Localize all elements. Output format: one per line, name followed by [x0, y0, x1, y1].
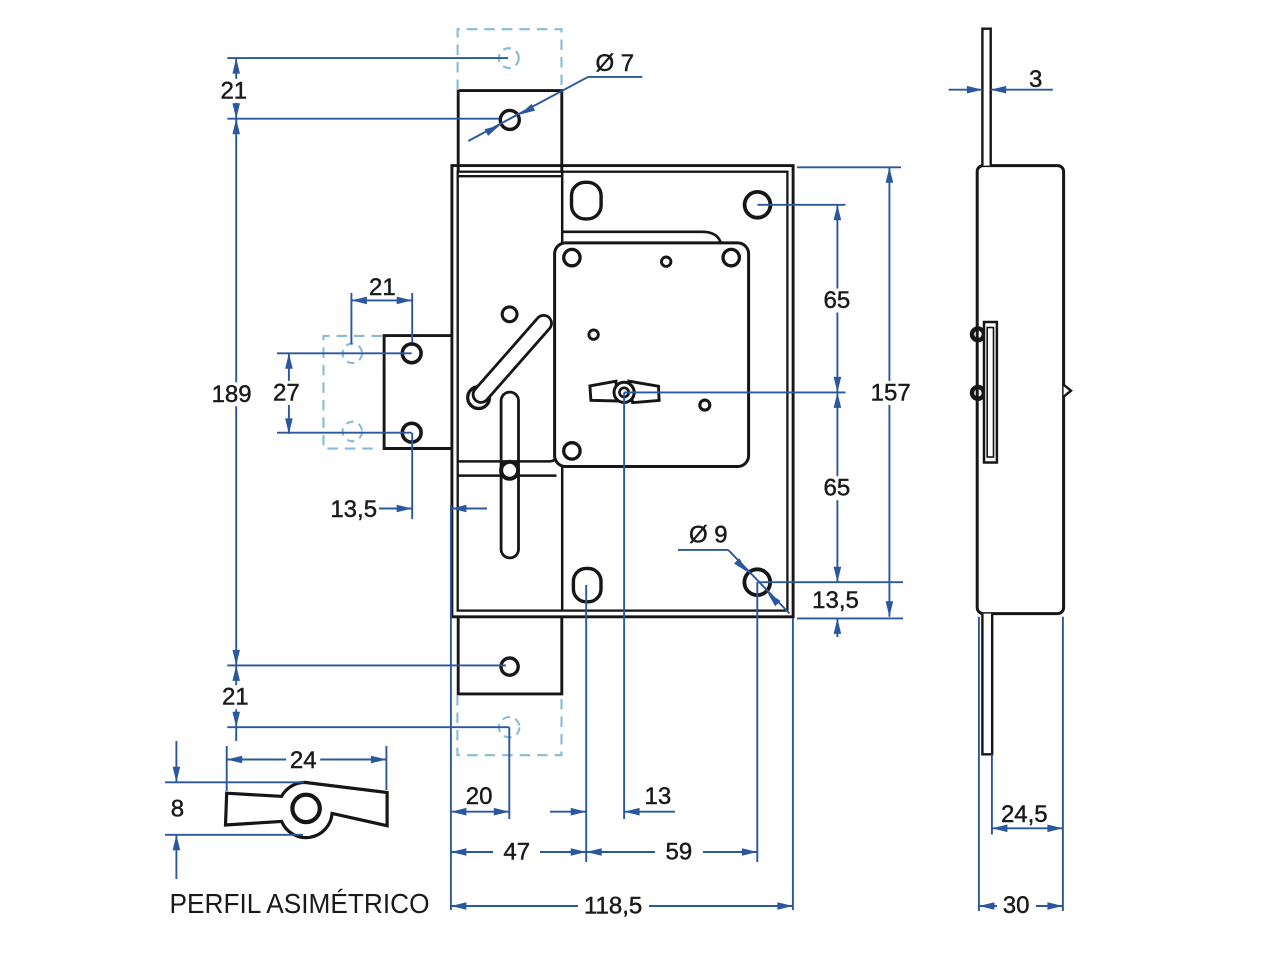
vertical divider plate edge: [561, 172, 564, 611]
svg-text:20: 20: [466, 783, 493, 810]
dim line 13,5 left: [379, 508, 412, 510]
side view slot plate inner slot: [987, 328, 993, 458]
vertical slotted link bar: [501, 392, 518, 558]
main cover plate (rounded rect): [555, 243, 749, 467]
leader O7: [588, 76, 642, 78]
label 65 upper: [820, 289, 854, 313]
ext line strip bottom: [991, 754, 993, 834]
svg-text:24,5: 24,5: [1001, 801, 1048, 828]
ext line side left: [978, 617, 980, 911]
follower hub bore: [620, 388, 629, 397]
dim 13 leader right: [624, 811, 675, 813]
follower right wing: [629, 381, 659, 402]
svg-text:59: 59: [666, 839, 693, 866]
label 65 lower: [820, 476, 854, 500]
leader O9: [678, 549, 728, 551]
dim line 30: [979, 905, 997, 907]
ext line latch b: [411, 293, 413, 343]
cover plate hole top-right: [723, 249, 739, 265]
label 118,5: [581, 895, 645, 917]
lever arm (diagonal capsule): [470, 312, 555, 405]
svg-text:3: 3: [1029, 66, 1042, 93]
arrows dim 27: [285, 353, 293, 369]
extension line y665.4: [227, 664, 506, 666]
phantom box left of latch tab: [324, 336, 383, 449]
lever pivot boss: [468, 387, 490, 409]
lock case inner outline: [458, 172, 788, 611]
arrows dim 21 bottom: [232, 665, 240, 681]
svg-text:157: 157: [871, 379, 911, 406]
arrows O7: [520, 104, 535, 115]
arrows dim 24,5: [992, 825, 1008, 833]
ext line y353: [277, 352, 412, 354]
follower left wing: [590, 381, 617, 401]
ext lines 24: [226, 746, 228, 791]
label 24: [286, 750, 320, 772]
svg-text:65: 65: [824, 475, 851, 502]
arrows dim 21 latch: [351, 297, 367, 305]
dim line 47: [451, 851, 493, 853]
follower hub outer: [614, 382, 634, 402]
top tab lower edge: [458, 175, 563, 177]
arrow 13,5 at hole: [397, 505, 413, 513]
label 47: [499, 841, 535, 863]
side view bottom strip: [982, 614, 992, 755]
top mounting tab: [458, 91, 562, 172]
phantom circle top: [499, 48, 519, 68]
dim line 24: [227, 759, 387, 761]
svg-text:Ø 7: Ø 7: [595, 50, 634, 77]
svg-text:118,5: 118,5: [584, 893, 642, 920]
slotted bar pivot: [501, 462, 518, 479]
arrow dim 13,5 right lower: [836, 618, 838, 637]
hole in bottom tab: [501, 658, 518, 675]
left latch tab: [384, 336, 452, 449]
side view latch chevron: [1064, 385, 1071, 397]
ext line side right: [1062, 617, 1064, 911]
label 8: [166, 797, 188, 821]
extension right edge vertical: [792, 618, 794, 910]
dim 13 leader left: [550, 811, 586, 813]
arrows dim 118,5: [451, 902, 467, 910]
bolt guide lower line: [458, 474, 557, 477]
case hole bottom-right O9: [744, 569, 770, 595]
extension follower vertical: [623, 392, 625, 819]
dim line 27: [288, 353, 290, 434]
cover plate small hole mid-left: [589, 330, 598, 339]
arrow 13,5 at case edge: [451, 508, 487, 510]
bolt guide upper line: [458, 454, 558, 462]
label 27: [269, 381, 303, 405]
ext line hole drop: [411, 433, 413, 519]
oval hole upper: [572, 182, 602, 219]
arrows dim 65 upper: [834, 205, 842, 221]
label 59: [661, 841, 697, 863]
arrows dim 24: [227, 756, 243, 764]
svg-text:13,5: 13,5: [330, 496, 377, 523]
extension line y118.7: [227, 118, 499, 120]
svg-text:24: 24: [290, 747, 317, 774]
label 30: [998, 895, 1034, 917]
svg-text:21: 21: [222, 684, 249, 711]
side view top strip (faceplate edge): [982, 29, 990, 166]
arrows dim 157: [886, 167, 894, 183]
dim line 157: [888, 167, 890, 617]
svg-text:13,5: 13,5: [812, 587, 859, 614]
dim line 59: [586, 851, 655, 853]
ext line hole O9 top: [758, 204, 846, 206]
dim line 8 lower: [175, 835, 177, 879]
cover plate small hole mid-right: [700, 400, 710, 410]
arrows dim 65 lower: [834, 392, 842, 408]
dim line 8 upper: [175, 741, 177, 782]
arrows dim 21 top: [232, 58, 240, 74]
phantom box below bottom tab: [457, 695, 561, 755]
case hole upper left compartment: [502, 307, 517, 322]
svg-text:189: 189: [212, 381, 252, 408]
oval hole lower: [573, 568, 601, 601]
extension drop from phantom circle: [508, 727, 510, 819]
extension oval vertical: [585, 585, 587, 862]
cover plate hole top-left: [564, 249, 580, 265]
phantom circle latch upper: [343, 344, 362, 363]
arrows dim 59: [586, 848, 602, 856]
left tab lower hole: [402, 423, 421, 442]
side view case body: [977, 166, 1063, 614]
arrows dim 30: [979, 902, 995, 910]
label 13,5 right: [811, 589, 861, 613]
arrows dim 47: [451, 848, 467, 856]
arrows O9: [734, 558, 747, 572]
svg-text:47: 47: [503, 839, 530, 866]
ext line profile bottom: [165, 834, 303, 836]
ext line y432.7: [277, 432, 412, 434]
extension line y58: [227, 57, 508, 59]
dim line 24,5: [992, 827, 1063, 829]
dim 3 right part: [991, 89, 1053, 91]
centerline follower to right: [624, 391, 845, 393]
phantom circle latch lower: [343, 422, 362, 441]
svg-text:8: 8: [171, 796, 184, 823]
svg-text:Ø 9: Ø 9: [689, 522, 728, 549]
cover plate small hole top-center: [662, 257, 671, 266]
dim 3 left part: [949, 89, 983, 91]
extension left edge vertical: [450, 505, 452, 910]
cover plate hole bottom-left: [564, 443, 580, 459]
extension line y727.2: [227, 726, 509, 728]
asymmetric profile outline: [226, 782, 388, 837]
lock case outer outline (front view): [452, 166, 793, 617]
svg-text:21: 21: [220, 77, 247, 104]
label 21 top: [217, 79, 251, 103]
ext line case bottom right: [797, 617, 903, 619]
hole O7 in top tab: [500, 110, 519, 129]
dim line 20: [451, 811, 509, 813]
case hole top-right O9: [745, 192, 771, 218]
svg-text:30: 30: [1003, 892, 1030, 919]
dim line 21 latch: [351, 299, 412, 301]
ext line hole O9 bottom: [757, 581, 903, 583]
dim line 118,5: [451, 905, 578, 907]
dimension chain line left: [235, 58, 237, 741]
asymmetric profile bore: [292, 795, 319, 822]
arrows dim 20: [451, 808, 467, 816]
side view rivet bump upper: [972, 328, 984, 340]
arrows dim 189: [232, 119, 240, 135]
svg-text:65: 65: [824, 287, 851, 314]
phantom box above top tab: [458, 29, 562, 90]
left tab upper hole: [402, 344, 421, 363]
label 157: [868, 381, 914, 405]
extension O9 vertical: [756, 582, 758, 862]
label 189: [209, 382, 255, 406]
side view rivet bump lower: [972, 387, 984, 399]
dim line 65 pair: [836, 205, 838, 582]
ext line latch a: [350, 293, 352, 345]
svg-text:PERFIL ASIMÉTRICO: PERFIL ASIMÉTRICO: [170, 888, 430, 919]
side view slot plate: [984, 322, 997, 463]
svg-text:27: 27: [273, 379, 300, 406]
svg-text:21: 21: [369, 274, 396, 301]
rear cover plate step edge: [562, 232, 723, 248]
ext line case top right: [797, 166, 901, 168]
phantom circle bottom: [499, 717, 519, 737]
svg-text:13: 13: [645, 783, 672, 810]
label 21 bottom: [218, 685, 252, 709]
ext line profile top: [165, 781, 304, 783]
bottom mounting tab: [458, 617, 562, 694]
